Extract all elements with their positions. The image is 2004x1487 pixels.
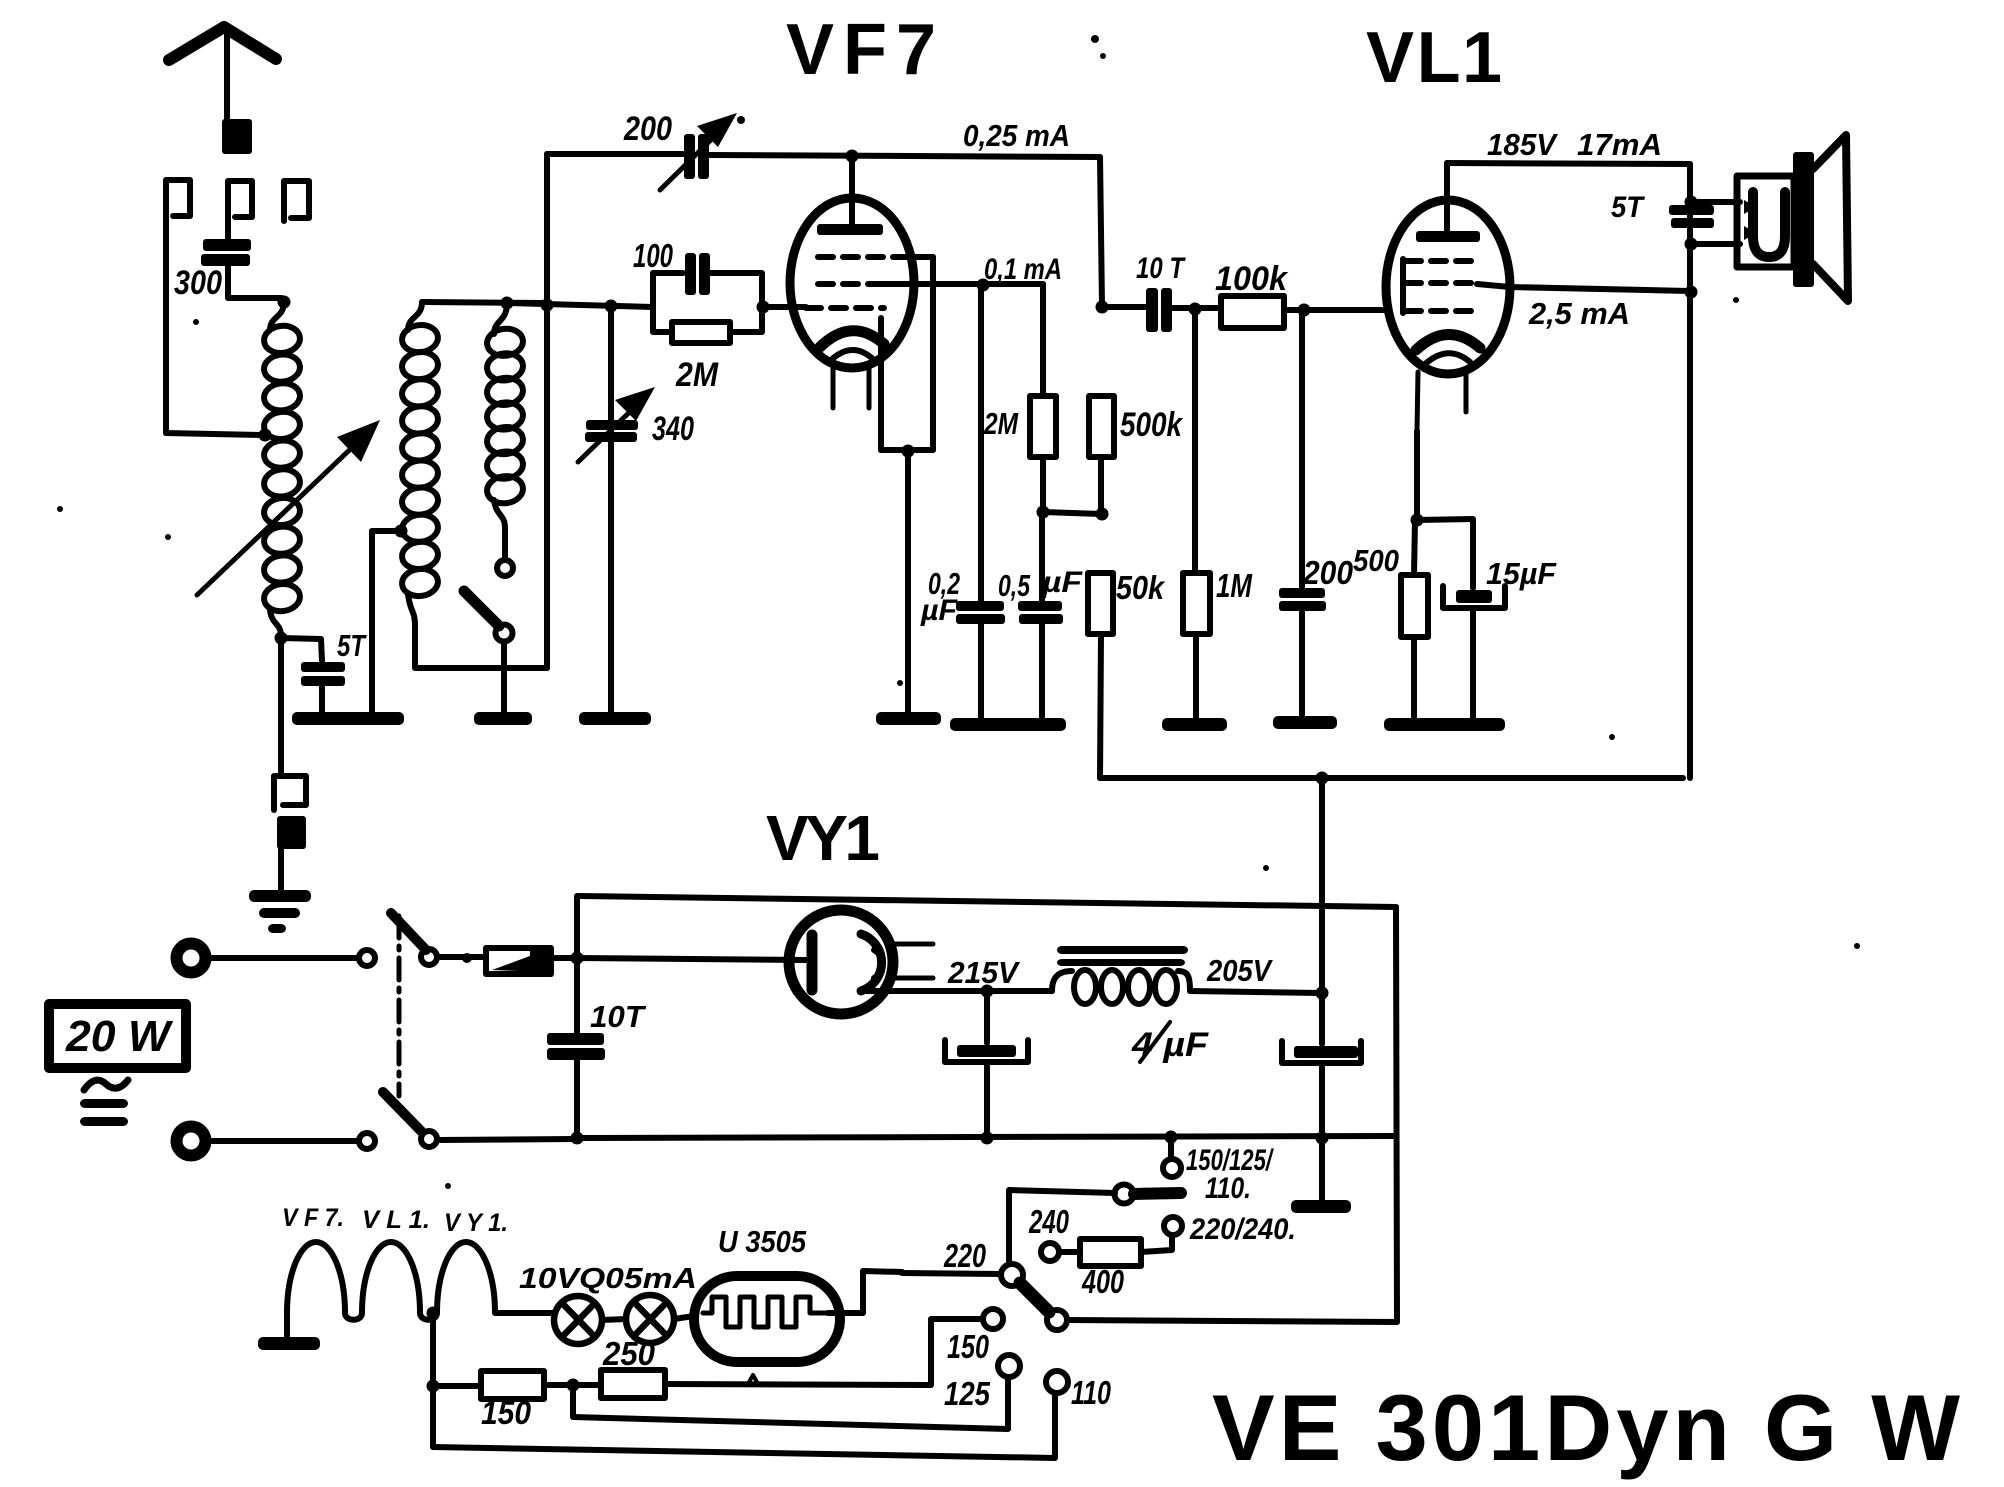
- node screen join: [1685, 286, 1698, 299]
- switch lever (reaction switch): [464, 591, 499, 626]
- switch contact lower: [359, 1133, 375, 1149]
- wire 50k to HT rail: [1100, 634, 1101, 778]
- scan specks: [1091, 35, 1099, 43]
- resistor 500 (cathode bias): [1414, 520, 1415, 575]
- wire PSU box top edge: [579, 896, 1396, 907]
- wire C300 to node: [228, 266, 282, 298]
- wire to transformer: [1691, 241, 1740, 247]
- svg-text:340: 340: [652, 410, 694, 448]
- VY1 cathode arcs: [861, 934, 882, 991]
- wire 185V anode: [1447, 163, 1690, 164]
- ground bar 6: [1162, 718, 1227, 731]
- node L1 tap: [259, 429, 272, 442]
- svg-text:500: 500: [1353, 543, 1399, 578]
- capacitor 200 (AF bypass): [1299, 310, 1305, 588]
- wire B- rail: [577, 1136, 1396, 1138]
- svg-text:V L 1: V L 1: [1366, 18, 1502, 98]
- resistor 1M (grid leak VL1): [1192, 309, 1198, 573]
- coil L2 (tuning coil): [408, 302, 422, 330]
- wire to chassis ground: [1319, 1138, 1325, 1200]
- filter choke: [1057, 946, 1188, 954]
- capacitor 4uF (filter output): [1319, 993, 1325, 1044]
- wire L1 bottom to C 5T: [281, 638, 322, 661]
- wire screen 2,5mA: [1477, 284, 1689, 291]
- node 0.2uF branch: [977, 279, 990, 292]
- arrow (variable antenna coupling): [197, 440, 360, 595]
- svg-text:150: 150: [947, 1328, 989, 1365]
- resistor 400: [1059, 1249, 1080, 1255]
- wire VY1 filament stub 2: [891, 976, 933, 981]
- mains switch lower lever: [383, 1092, 421, 1131]
- capacitor 5T (antenna bypass): [301, 662, 345, 672]
- capacitor 5T (tone, across primary): [1669, 205, 1714, 215]
- ground bar 7: [1273, 716, 1337, 729]
- wire to R2M: [1040, 284, 1046, 396]
- selector blade upper: [1115, 1185, 1134, 1204]
- resistor U3505 (Urdox regulator): [694, 1276, 840, 1362]
- wire B+ vertical right: [1687, 164, 1693, 778]
- svg-text:300: 300: [174, 264, 222, 302]
- wire socket2 to C300: [225, 219, 231, 240]
- wire to rail: [438, 1139, 574, 1140]
- wire coil top bus: [422, 302, 546, 303]
- speaker driver bar: [1793, 152, 1814, 287]
- VF7 anode plate: [817, 224, 883, 235]
- ground bar 1: [292, 712, 404, 725]
- antenna socket 3: [284, 181, 309, 221]
- wire grid bus: [507, 303, 653, 307]
- node rail left: [571, 1132, 584, 1145]
- svg-text:240: 240: [1028, 1203, 1069, 1240]
- svg-text:2M: 2M: [983, 406, 1019, 441]
- resistor 250 (dropper): [601, 1370, 665, 1398]
- tube VF7 envelope: [790, 198, 914, 368]
- dial lamp 2: [626, 1295, 674, 1343]
- wire 0.1mA: [884, 281, 1043, 287]
- svg-text:V Y 1: V Y 1: [766, 802, 880, 874]
- resistor 2M (screen feed): [1030, 396, 1056, 457]
- wire HT rail: [1100, 775, 1683, 781]
- node anode load: [1096, 301, 1109, 314]
- wire L3 to switch contact: [502, 528, 508, 559]
- mains jack upper: [177, 944, 206, 973]
- ground bar heater: [258, 1337, 320, 1350]
- wire jack to switch: [211, 955, 356, 961]
- svg-text:V L 1.: V L 1.: [362, 1206, 430, 1234]
- node L1 bottom: [275, 632, 288, 645]
- wire 10T cap upper: [574, 896, 580, 1033]
- selector lever lower: [1020, 1283, 1049, 1312]
- antenna socket 1: [166, 180, 190, 219]
- VL1 cathode arcs: [1416, 334, 1480, 350]
- svg-text:17mA: 17mA: [1577, 127, 1662, 162]
- wire VY1 output 215V: [866, 988, 985, 994]
- svg-text:200: 200: [1302, 554, 1353, 591]
- resistor 100k (grid stopper): [1195, 305, 1221, 311]
- node 2M bottom: [1037, 506, 1050, 519]
- VF7 grid rows (dashed): [818, 254, 900, 260]
- coil L3 (reaction coil): [494, 303, 507, 334]
- wire VL1 heater leg: [1464, 370, 1469, 412]
- tube VY1 envelope: [789, 910, 893, 1014]
- wire HT feed down: [1319, 778, 1325, 992]
- svg-text:15µF: 15µF: [1486, 556, 1557, 591]
- wire PSU box bottom edge: [1067, 1320, 1397, 1322]
- svg-text:220/240.: 220/240.: [1189, 1213, 1296, 1246]
- wire tap stub: [372, 528, 397, 534]
- svg-text:500k: 500k: [1120, 406, 1184, 444]
- wire to C10T: [1102, 304, 1145, 310]
- svg-text:215V: 215V: [947, 955, 1020, 990]
- svg-text:185V: 185V: [1487, 127, 1558, 162]
- wire to C 0.2uF: [978, 285, 984, 601]
- selector contact 110: [1046, 1371, 1068, 1393]
- capacitor 10T (coupling): [1146, 288, 1158, 332]
- svg-text:5T: 5T: [337, 628, 367, 663]
- wire to 150/125/110 contact: [1168, 1137, 1174, 1158]
- svg-text:50k: 50k: [1116, 569, 1165, 606]
- wire L2 tap to ground: [369, 531, 375, 712]
- ground bar 3: [579, 712, 651, 725]
- VF7 cathode arcs: [820, 331, 884, 347]
- svg-text:10VQ05mA: 10VQ05mA: [519, 1263, 697, 1295]
- node resistor row: [427, 1380, 440, 1393]
- svg-text:U 3505: U 3505: [718, 1224, 807, 1259]
- wire anode feed: [577, 958, 806, 960]
- mains switch upper lever: [391, 913, 426, 950]
- mains jack lower: [177, 1127, 206, 1156]
- switch contact (reaction): [497, 560, 513, 576]
- socket (earth jack, open square): [274, 776, 306, 810]
- wire 220 feed: [902, 1273, 1000, 1274]
- resistor 50k: [1088, 573, 1113, 634]
- capacitor 300 (antenna series cap): [203, 239, 251, 251]
- selector pivot contact 220: [1001, 1264, 1023, 1286]
- ground bar 4: [876, 712, 941, 725]
- resistor 150 (dropper): [433, 1383, 481, 1389]
- VL1 grid rows: [1400, 259, 1406, 313]
- speaker horn: [1813, 135, 1848, 301]
- wire U3505 to 220: [828, 1271, 902, 1313]
- wire VF7 heater leg 1: [831, 368, 836, 408]
- ground bar 2: [474, 712, 532, 725]
- svg-text:1M: 1M: [1216, 567, 1253, 604]
- ground bar 9: [1291, 1200, 1351, 1213]
- wire anode 0.25mA: [709, 155, 1100, 157]
- wire to fuse: [438, 954, 486, 960]
- ground bar 8: [1384, 718, 1505, 731]
- svg-text:V F 7.: V F 7.: [282, 1204, 344, 1232]
- wire to transformer: [1691, 199, 1740, 205]
- node heater tap: [427, 1307, 440, 1320]
- switch link (dash-dot): [397, 916, 402, 1096]
- coil L1 (antenna coil): [270, 302, 284, 330]
- wire PSU box right edge: [1396, 907, 1397, 1322]
- wire VY1 filament stub 1: [893, 942, 933, 947]
- capacitor 0,2 uF: [956, 601, 1004, 611]
- node cathode: [1411, 514, 1424, 527]
- wire switch to ground: [501, 642, 507, 712]
- svg-text:V Y 1.: V Y 1.: [444, 1209, 508, 1237]
- heater chain (VF7 VL1 VY1 filaments): [287, 1242, 554, 1336]
- label 20W box: [49, 1004, 186, 1068]
- svg-text:220: 220: [943, 1237, 986, 1274]
- selector contact 220/240: [1164, 1217, 1182, 1235]
- output transformer box: [1737, 176, 1794, 267]
- wire heater tap down: [430, 1313, 436, 1447]
- node VF7 anode top cap: [846, 150, 859, 163]
- svg-text:2M: 2M: [675, 356, 718, 394]
- node mains upper: [571, 952, 584, 965]
- wire screen to ground: [905, 451, 911, 712]
- wire 125 tap: [573, 1378, 1008, 1429]
- antenna plug (solid): [222, 119, 252, 154]
- earth ground symbol: [249, 890, 311, 902]
- node transformer bottom: [1685, 238, 1698, 251]
- node 500k/50k: [1096, 508, 1109, 521]
- svg-text:5T: 5T: [1611, 191, 1645, 224]
- capacitor 4uF (filter input): [984, 991, 990, 1043]
- selector contact 125: [998, 1355, 1020, 1377]
- VY1 anode plate: [807, 935, 818, 990]
- svg-text:µF: µF: [920, 594, 958, 627]
- svg-text:250: 250: [602, 1335, 656, 1372]
- wire L2 bottom: [415, 626, 547, 668]
- node selector common: [1165, 1131, 1178, 1144]
- node grid bus crossing: [541, 299, 554, 312]
- node 215V: [981, 985, 994, 998]
- wire VL1 top cap lead: [1444, 163, 1450, 231]
- ground bar 5 (wide): [950, 718, 1066, 731]
- wire VF7 top cap lead: [849, 156, 855, 224]
- node HT to PSU: [1316, 772, 1329, 785]
- wire cathode down: [1414, 431, 1420, 519]
- wire vertical regen bus: [544, 154, 550, 668]
- wire C340 to ground: [608, 306, 614, 712]
- node 1M branch: [1189, 303, 1202, 316]
- node L3 top: [501, 297, 514, 310]
- selector contact 150: [983, 1309, 1003, 1329]
- wire tap to coil L1: [166, 433, 263, 435]
- svg-text:150: 150: [481, 1394, 532, 1431]
- wire to earth ground: [278, 849, 284, 890]
- selector contact 240: [1041, 1243, 1059, 1261]
- svg-text:10T: 10T: [590, 999, 647, 1034]
- wire VL1 cathode leg: [1417, 372, 1418, 431]
- VF7 screen lead rectangle: [930, 257, 936, 450]
- earth plug (solid): [277, 816, 306, 849]
- svg-text:125: 125: [944, 1375, 991, 1412]
- wire to VF7 grid: [763, 304, 806, 310]
- node L2 tap: [395, 525, 408, 538]
- svg-text:110: 110: [1071, 1374, 1111, 1411]
- wire 110 (bottom): [433, 1394, 1055, 1458]
- dial lamp 1: [554, 1296, 602, 1344]
- node 125 tap: [567, 1379, 580, 1392]
- svg-text:10 T: 10 T: [1136, 252, 1186, 285]
- svg-text:0,25 mA: 0,25 mA: [963, 118, 1070, 153]
- svg-text:VE 301Dyn G W: VE 301Dyn G W: [1212, 1375, 1960, 1480]
- wire jack to switch: [211, 1138, 356, 1144]
- svg-text:100: 100: [633, 237, 673, 274]
- capacitor 100 (grid cap): [653, 273, 683, 307]
- VL1 anode plate: [1416, 231, 1480, 242]
- voice coil U: [1753, 192, 1785, 257]
- svg-text:200: 200: [623, 110, 672, 148]
- capacitor 15uF (cathode bypass): [1417, 519, 1473, 588]
- switch contact upper: [359, 950, 375, 966]
- fuse: [486, 948, 551, 974]
- svg-text:0,5: 0,5: [998, 568, 1031, 603]
- antenna symbol: [169, 27, 276, 60]
- capacitor 0,5 uF: [1039, 512, 1045, 601]
- trimmer capacitor 200 (regeneration): [684, 134, 695, 179]
- wire regen top left: [547, 151, 683, 157]
- svg-text:2,5 mA: 2,5 mA: [1528, 296, 1630, 331]
- AC/DC symbol: [84, 1080, 128, 1090]
- wire to earth plug: [278, 638, 284, 775]
- antenna socket 2: [228, 181, 252, 221]
- node 205V: [1316, 987, 1329, 1000]
- svg-text:100k: 100k: [1215, 260, 1289, 298]
- wire down to R500k: [1100, 157, 1102, 306]
- resistor 2M (grid leak, parallel): [653, 307, 671, 332]
- selector contact 150/125/110: [1163, 1159, 1181, 1177]
- wire antenna lead: [224, 33, 230, 119]
- svg-text:400: 400: [1081, 1263, 1124, 1300]
- wire 250 to 150-contact: [665, 1319, 983, 1385]
- wire socket1 down: [163, 219, 169, 433]
- svg-text:110.: 110.: [1205, 1172, 1251, 1205]
- node VF7 grid: [757, 301, 770, 314]
- wire VF7 heater leg 2: [867, 366, 872, 408]
- svg-text:V F 7: V F 7: [786, 10, 936, 90]
- node C200 branch: [1298, 304, 1311, 317]
- tube VL1 envelope: [1386, 200, 1510, 374]
- resistor 500k (anode load): [1089, 396, 1114, 457]
- node antenna junction: [278, 296, 291, 309]
- node screen junction: [902, 445, 915, 458]
- svg-text:µF: µF: [1041, 566, 1083, 599]
- wire blade to pivot: [1009, 1190, 1115, 1263]
- svg-text:0,1 mA: 0,1 mA: [984, 253, 1062, 286]
- svg-text:205V: 205V: [1206, 953, 1273, 988]
- wire C 5T to ground: [319, 686, 325, 712]
- node transformer top: [1685, 196, 1698, 209]
- variable capacitor 340 (tuning): [586, 420, 638, 430]
- svg-text:20 W: 20 W: [65, 1012, 174, 1061]
- node C340 branch: [605, 300, 618, 313]
